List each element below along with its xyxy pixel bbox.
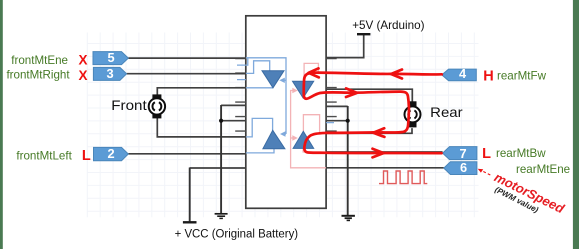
svg-text:L: L [482, 146, 491, 162]
svg-text:5: 5 [107, 50, 114, 65]
svg-text:X: X [78, 68, 87, 83]
svg-text:frontMtEne: frontMtEne [11, 54, 68, 67]
svg-text:Rear: Rear [430, 104, 463, 120]
svg-text:rearMtEne: rearMtEne [516, 163, 570, 176]
svg-text:4: 4 [459, 66, 467, 81]
svg-text:rearMtFw: rearMtFw [497, 69, 547, 82]
svg-text:rearMtBw: rearMtBw [496, 147, 546, 160]
svg-text:+ VCC (Original Battery): + VCC (Original Battery) [175, 228, 299, 240]
svg-text:+5V (Arduino): +5V (Arduino) [352, 19, 424, 32]
svg-text:H: H [483, 69, 493, 85]
svg-text:Front: Front [111, 98, 147, 113]
svg-text:frontMtRight: frontMtRight [6, 68, 70, 81]
svg-text:3: 3 [106, 66, 113, 81]
svg-text:7: 7 [459, 146, 466, 161]
svg-text:6: 6 [460, 160, 467, 175]
svg-text:2: 2 [107, 146, 114, 161]
svg-text:L: L [82, 148, 91, 164]
svg-text:frontMtLeft: frontMtLeft [16, 150, 72, 163]
svg-text:X: X [78, 53, 87, 68]
